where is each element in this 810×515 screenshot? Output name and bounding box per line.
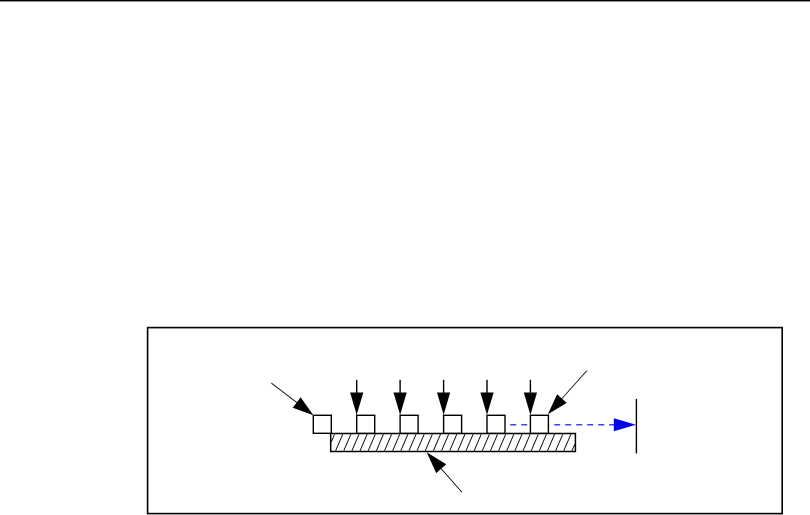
- down arrow over square 2: [350, 380, 363, 415]
- vertical wall line: [635, 399, 637, 453]
- block square 2: [357, 415, 375, 433]
- hatched beam bar: [319, 433, 580, 453]
- down arrow over square 3: [394, 380, 407, 415]
- upper-left leader arrow to square 1: [271, 383, 313, 415]
- down arrow over square 4: [437, 380, 450, 415]
- upper-right leader arrow to square 6: [548, 371, 587, 415]
- bottom leader arrow to beam: [427, 452, 462, 492]
- block square 4: [444, 415, 462, 433]
- figure frame box: [148, 328, 783, 514]
- block square 3: [400, 415, 418, 433]
- block square 5: [487, 415, 505, 433]
- blue arrowhead: [614, 418, 636, 431]
- top horizontal rule: [0, 0, 810, 1]
- down arrow over square 6: [524, 380, 537, 415]
- block square 1: [313, 415, 331, 433]
- block square 6: [530, 415, 548, 433]
- down arrow over square 5: [480, 380, 493, 415]
- blue dashed trajectory line: [510, 424, 616, 426]
